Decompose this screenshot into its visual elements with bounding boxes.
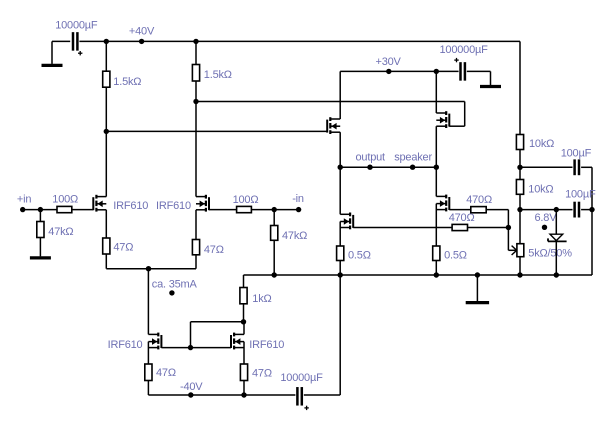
svg-text:-in: -in [292, 193, 304, 205]
svg-text:IRF610: IRF610 [249, 339, 284, 351]
wire R15 to node E [519, 194, 521, 209]
resistor R16 470R body [471, 207, 486, 213]
node 0.5R#2 bottom junction [434, 272, 439, 277]
svg-text:ca. 35mA: ca. 35mA [152, 279, 198, 291]
wire 1k bottom to node C [243, 304, 245, 322]
wire R8 to tail rail [195, 255, 197, 269]
ground G4 below mid rail [476, 275, 478, 301]
transistor M4 IRF610 [230, 335, 232, 348]
wire M2 gate to R4 [209, 209, 237, 211]
node measure point 35mA [169, 290, 174, 295]
svg-text:0.5Ω: 0.5Ω [348, 249, 371, 261]
svg-text:+40V: +40V [129, 26, 155, 38]
node R4 / R6 junction [272, 207, 277, 212]
resistor R7 47R body [103, 238, 110, 254]
node R6 bottom on mid rail [272, 272, 277, 277]
transistor M5 IRF610 upper driver [326, 120, 328, 133]
resistor R5 47k body [37, 222, 44, 238]
svg-text:10kΩ: 10kΩ [528, 183, 553, 195]
wire R6 top [273, 210, 275, 226]
node measure point 6.8V [542, 225, 547, 230]
resistor R12 0.5R body [337, 246, 344, 261]
wire M3 gate to M4 gate [161, 347, 231, 349]
svg-text:IRF610: IRF610 [113, 200, 148, 212]
wire M5 source to output rail [339, 132, 341, 167]
wire C4 to right column [581, 166, 592, 168]
wire wiper down [507, 228, 509, 251]
node C junction 1k/M4 drain/gate link [241, 319, 246, 324]
wire M1 source to R7 [105, 210, 107, 238]
node +30V label dot [386, 69, 391, 74]
ground G1 top-left [51, 41, 53, 64]
wire +40V rail [79, 40, 520, 42]
node output rail left [338, 165, 343, 170]
potentiometer P1 5k body [517, 244, 524, 257]
wire M5 bus +30V corner down to drain [339, 71, 341, 119]
wire M6 source to output rail [435, 126, 437, 167]
wire -40V rail right of C3 [304, 394, 340, 396]
node right column junction [589, 207, 594, 212]
wire +in to R3 [23, 209, 57, 211]
wire R4 to -in [251, 209, 298, 211]
resistor R8 47R body [192, 240, 199, 255]
resistor R6 47k body [271, 226, 278, 241]
svg-text:1.5kΩ: 1.5kΩ [204, 69, 232, 81]
node speaker terminal [410, 165, 415, 170]
resistor R4 100R body [237, 206, 252, 212]
svg-text:1kΩ: 1kΩ [252, 293, 271, 305]
resistor R17 470R body [452, 224, 467, 230]
node zener bottom junction [554, 272, 559, 277]
wire rail to R1 [105, 41, 107, 71]
svg-text:IRF610: IRF610 [156, 200, 191, 212]
wire node C to gate-link corner [191, 321, 244, 323]
node tail junction to M3 [146, 266, 151, 271]
node D junction 10k/10k/100uF [517, 165, 522, 170]
wire +40V rail corner down right column [519, 41, 521, 134]
svg-text:47Ω: 47Ω [156, 367, 176, 379]
svg-text:47Ω: 47Ω [204, 244, 224, 256]
zener D1 wire top [555, 210, 557, 235]
wire wiper arm [508, 249, 516, 251]
wire riser -40V rail to mid rail [339, 275, 341, 395]
resistor R9 47R body [145, 364, 152, 381]
wire M7 drain bus from output rail [339, 167, 341, 214]
svg-text:100Ω: 100Ω [233, 194, 259, 206]
svg-text:10000µF: 10000µF [55, 19, 98, 31]
wiper arrowhead [512, 246, 517, 251]
wire 1k column top [243, 275, 245, 288]
wire +30V rail [340, 70, 458, 72]
svg-text:+in: +in [17, 193, 31, 205]
transistor M2 IRF610 mirrored [208, 197, 210, 210]
wire R16 to corner [486, 209, 508, 211]
svg-text:470Ω: 470Ω [466, 194, 492, 206]
wire M2 source to R8 [195, 210, 197, 240]
wire R6 bottom to mid rail [273, 240, 275, 275]
wire R5 top [39, 210, 41, 222]
node zener top junction [554, 207, 559, 212]
wire rail to R2 [195, 41, 197, 64]
resistor R2 1.5k body [192, 65, 199, 82]
wire tail rail [106, 268, 196, 270]
wire M8 gate to R16 [449, 209, 471, 211]
wire R14 to node D [519, 150, 521, 168]
svg-text:IRF610: IRF610 [108, 339, 143, 351]
node A junction R1/M1/M5-gate [104, 129, 109, 134]
capacitor C2 100000uF [459, 62, 462, 81]
wire pot bottom to mid rail [519, 257, 521, 275]
svg-text:1.5kΩ: 1.5kΩ [113, 76, 141, 88]
node R10 bottom junction [241, 392, 246, 397]
wire M8 source bus to R13 [435, 204, 437, 246]
wire R13 to mid rail [435, 261, 437, 276]
resistor R15 10k body [516, 180, 523, 195]
wire M6 gate loop vertical [464, 102, 466, 127]
ground G3 right of C2 [490, 71, 492, 85]
node +in terminal [20, 207, 25, 212]
transistor M8 IRF610 mirrored output lower-right [448, 197, 450, 210]
node +in / R5 junction [38, 207, 43, 212]
wire M7 source to R12 [339, 222, 341, 247]
svg-text:47Ω: 47Ω [113, 242, 133, 254]
wire R9 to -40V rail [147, 381, 149, 396]
node -in terminal [296, 207, 301, 212]
node pot bottom junction [517, 272, 522, 277]
wire node B to M6 gate loop [196, 101, 465, 103]
wire right column down [591, 167, 593, 275]
transistor M1 IRF610 [92, 197, 94, 210]
node M6 top junction [434, 69, 439, 74]
svg-text:6.8V: 6.8V [535, 212, 558, 224]
transistor M7 IRF610 mirrored output lower-left [352, 215, 354, 228]
svg-text:10000µF: 10000µF [280, 372, 323, 384]
svg-text:100µF: 100µF [561, 147, 592, 159]
wire gate-link vertical [190, 322, 192, 348]
wire M4 drain bus from node C [243, 322, 245, 335]
transistor M3 IRF610 mirrored [160, 335, 162, 348]
node M8 top junction [434, 165, 439, 170]
wire node A to M5 gate [106, 130, 327, 132]
ground G2 below R5 [39, 238, 41, 257]
wire R17 to wiper node [468, 227, 509, 229]
node -40V label dot [188, 392, 193, 397]
wire R10 to -40V rail [243, 381, 245, 396]
zener D1 cathode bar [548, 240, 567, 242]
svg-text:47Ω: 47Ω [252, 368, 272, 380]
resistor R13 0.5R body [433, 246, 440, 261]
resistor R1 1.5k body [103, 71, 110, 87]
wire R3 to M1 gate [72, 209, 94, 211]
capacitor C4 100uF [573, 159, 576, 175]
resistor R3 100R body [57, 206, 72, 212]
capacitor C5 100uF [573, 202, 576, 218]
svg-text:speaker: speaker [394, 151, 432, 163]
wire R1 bottom to M1 drain [105, 87, 107, 196]
capacitor C3 10000uF [296, 387, 299, 406]
wire M3 drain bus up to tail [147, 269, 149, 335]
svg-text:47kΩ: 47kΩ [282, 230, 307, 242]
wire pot top [519, 210, 521, 244]
wire -40V rail left of C3 [148, 394, 295, 396]
wire output rail [340, 166, 436, 168]
node wiper junction [506, 225, 511, 230]
wire node D to C4 [520, 166, 573, 168]
wire R7 to tail rail [105, 254, 107, 269]
svg-text:100Ω: 100Ω [52, 193, 78, 205]
wire mid rail y275 [244, 274, 593, 276]
zener D1 wire bottom [555, 241, 557, 275]
wire M6 gate loop horizontal [449, 125, 464, 127]
capacitor C1 10000uF [72, 32, 75, 51]
node E junction 10k2/pot/zener wire [517, 207, 522, 212]
svg-text:5kΩ/50%: 5kΩ/50% [528, 248, 572, 260]
wire corner down to wiper node [507, 210, 509, 228]
resistor R11 1k body [240, 288, 247, 304]
wire 10k2 top [519, 167, 521, 179]
wire node E to C5 [520, 209, 573, 211]
svg-text:-40V: -40V [180, 381, 203, 393]
zener D1 triangle [550, 234, 563, 240]
wire M6 bus top [435, 71, 437, 113]
svg-text:100µF: 100µF [565, 189, 596, 201]
wire M7 gate to R17 [353, 227, 452, 229]
resistor R10 47R body [240, 364, 247, 381]
node R2 top junction [193, 39, 198, 44]
wire C5 to right column [581, 209, 592, 211]
svg-text:10kΩ: 10kΩ [529, 138, 554, 150]
wire M3 source to R9 [147, 342, 149, 364]
wire M8 drain bus from output rail [435, 167, 437, 196]
node +40V label dot [139, 39, 144, 44]
node mid rail / M7 column junction [338, 272, 343, 277]
svg-text:100000µF: 100000µF [440, 44, 489, 56]
wire R2 bottom to M2 drain [195, 81, 197, 197]
wire +40V rail left segment to C1 [52, 40, 70, 42]
wire R12 to mid rail [339, 261, 341, 276]
node output terminal [367, 165, 372, 170]
wire M4 source to R10 [243, 342, 245, 364]
svg-text:0.5Ω: 0.5Ω [444, 250, 467, 262]
wire C2 right to ground corner [467, 70, 491, 72]
node gate-link junction [188, 345, 193, 350]
node R1 top junction [104, 39, 109, 44]
svg-text:output: output [356, 151, 386, 163]
node B junction R2/M2/M6-gate [193, 99, 198, 104]
svg-text:470Ω: 470Ω [449, 212, 475, 224]
transistor M6 IRF610 mirrored upper right [448, 114, 450, 127]
svg-text:+30V: +30V [376, 56, 402, 68]
svg-text:47kΩ: 47kΩ [48, 226, 73, 238]
resistor R14 10k body [516, 135, 523, 150]
node ground junction on mid rail [475, 272, 480, 277]
